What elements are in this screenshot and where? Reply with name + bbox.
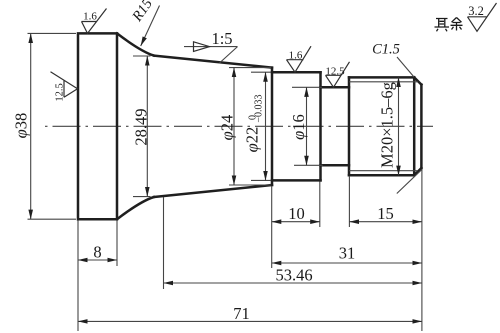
shoulder step φ24→φ22 bbox=[271, 68, 274, 185]
svg-text:53.46: 53.46 bbox=[275, 266, 312, 285]
svg-text:1:5: 1:5 bbox=[211, 29, 232, 48]
dimension 8 bbox=[78, 221, 117, 267]
dimension M20×1.5-6g bbox=[378, 77, 399, 175]
dimension φ38 bbox=[12, 33, 77, 219]
φ22 land top edge bbox=[272, 71, 321, 74]
dimension φ16 bbox=[289, 87, 323, 165]
φ22 land bottom edge bbox=[272, 179, 321, 182]
centerline bbox=[45, 125, 433, 127]
step φ22→groove bbox=[319, 72, 322, 180]
groove bottom edge bbox=[321, 164, 350, 167]
svg-text:28.49: 28.49 bbox=[132, 108, 151, 145]
surface finish 12.5 on flange left face bbox=[51, 72, 78, 102]
svg-text:71: 71 bbox=[233, 304, 250, 323]
chamfer edge circle (vertical) bbox=[413, 77, 416, 175]
R15 fillet top bbox=[117, 33, 154, 55]
taper symbol 1:5 with leader bbox=[184, 29, 238, 63]
flange φ38 outline bbox=[78, 33, 117, 219]
svg-text:φ24: φ24 bbox=[218, 115, 237, 141]
svg-text:31: 31 bbox=[339, 244, 356, 263]
svg-text:φ22: φ22 bbox=[243, 127, 262, 153]
taper 1:5 top edge bbox=[154, 56, 272, 68]
chamfer C1.5 top bbox=[414, 77, 421, 84]
svg-text:1.6: 1.6 bbox=[289, 49, 303, 61]
svg-text:1.6: 1.6 bbox=[83, 11, 97, 23]
svg-text:12.5: 12.5 bbox=[325, 65, 345, 77]
thread end face bbox=[420, 85, 423, 168]
thread minor diameter thin lines bbox=[349, 81, 418, 83]
step groove→thread bbox=[348, 77, 351, 175]
svg-text:12.5: 12.5 bbox=[55, 83, 66, 101]
svg-text:3.2: 3.2 bbox=[468, 4, 484, 18]
svg-text:10: 10 bbox=[288, 204, 305, 223]
svg-text:φ16: φ16 bbox=[289, 114, 308, 140]
svg-text:8: 8 bbox=[93, 243, 101, 262]
thread top major edge bbox=[349, 76, 414, 79]
其余 (remainder) note glyphs bbox=[435, 18, 463, 32]
svg-text:M20×1.5–6g: M20×1.5–6g bbox=[378, 82, 397, 168]
R15 label and leader bbox=[129, 0, 160, 46]
dimension 15 bbox=[349, 169, 422, 331]
svg-text:−0.033: −0.033 bbox=[254, 94, 265, 122]
R15 fillet bottom bbox=[117, 197, 154, 219]
svg-text:φ38: φ38 bbox=[12, 113, 31, 139]
dimension φ24 bbox=[218, 68, 272, 185]
dimension 71 bbox=[78, 221, 422, 332]
thread bottom major edge bbox=[349, 174, 414, 177]
svg-text:15: 15 bbox=[377, 204, 394, 223]
dimension 10 bbox=[272, 182, 320, 269]
dimension φ22 0/-0.033 bbox=[243, 72, 272, 180]
C1.5 label and leader bbox=[372, 42, 414, 78]
chamfer C1.5 bottom bbox=[414, 168, 421, 175]
surface finish 1.6 on φ22 bbox=[287, 46, 312, 72]
taper 1:5 bottom edge bbox=[154, 185, 272, 197]
dimension 53.46 bbox=[164, 197, 422, 289]
groove top edge bbox=[321, 86, 350, 89]
surface finish 1.6 on flange top bbox=[82, 9, 107, 34]
bottom chamfer leader bbox=[397, 170, 422, 194]
dimension 31 bbox=[272, 244, 422, 264]
svg-text:C1.5: C1.5 bbox=[372, 42, 400, 58]
dimension 28.49 bbox=[132, 56, 151, 197]
surface finish 3.2 其余 symbol bbox=[468, 3, 497, 31]
surface finish 12.5 on groove bbox=[325, 62, 349, 88]
